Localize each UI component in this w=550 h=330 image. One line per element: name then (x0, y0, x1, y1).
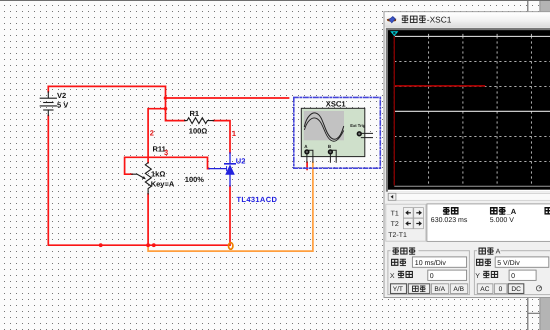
svg-text:A/B: A/B (453, 286, 464, 293)
svg-text:100%: 100% (185, 175, 205, 184)
svg-text:R1: R1 (190, 109, 200, 118)
net number 0 (orange, ground net) (229, 243, 233, 250)
svg-text:T2: T2 (391, 221, 399, 228)
shunt regulator U2 (TL431) leads (209, 153, 235, 186)
svg-text:Y/T: Y/T (393, 286, 403, 293)
buttons AC 0 DC (477, 284, 493, 294)
cursor T1 (393, 36, 395, 185)
svg-text:Y: Y (475, 273, 480, 280)
svg-text:TL431ACD: TL431ACD (237, 195, 278, 204)
buttons (391, 284, 407, 294)
battery (DC source) V2 (40, 92, 56, 116)
svg-text:U2: U2 (236, 156, 246, 165)
svg-text:0: 0 (430, 273, 434, 280)
svg-text:XSC1: XSC1 (326, 100, 347, 109)
svg-text:B/A: B/A (434, 286, 445, 293)
wire net1 branch to old scope position (166, 97, 289, 99)
wire bottom ground rail (48, 116, 230, 246)
svg-text:A: A (496, 249, 501, 256)
svg-text:V2: V2 (57, 91, 66, 100)
oscilloscope XSC1 selection dashed box (294, 97, 381, 168)
title bar (385, 12, 550, 27)
potentiometer R11 (145, 163, 151, 194)
sheet zone divider (528, 312, 540, 314)
scale row (477, 259, 491, 265)
scale row (392, 259, 406, 265)
channel B trace (flat 0V) (394, 110, 550, 112)
graticule (394, 36, 550, 186)
svg-text:1kΩ: 1kΩ (151, 169, 165, 178)
title text 示波器-XSC1 (402, 16, 426, 23)
potentiometer wiper arrow (132, 174, 144, 178)
svg-text:AC: AC (480, 286, 489, 293)
channel A trace (395, 85, 486, 87)
svg-text:DC: DC (511, 286, 521, 293)
svg-text:0: 0 (499, 286, 503, 293)
oscilloscope mini screen (304, 111, 344, 140)
U2 triangle body (225, 164, 235, 174)
sheet frame outer edge (539, 0, 541, 330)
horizontal scrollbar (396, 193, 550, 200)
svg-text:Key=A: Key=A (151, 179, 175, 188)
svg-text:3: 3 (164, 148, 168, 157)
svg-text:T1: T1 (391, 210, 399, 217)
svg-text:630.023 ms: 630.023 ms (431, 217, 468, 224)
junction channel B tap on ground rail (153.8,245.2) (152, 243, 156, 247)
wire R1 right to U2 cathode (214, 121, 231, 153)
sheet frame inner border line (527, 0, 529, 330)
title icon (387, 16, 396, 23)
oscilloscope XSC1 instrument body (301, 108, 365, 156)
junction on ground rail (100.7,245.2) (99, 243, 103, 247)
display (386, 28, 550, 192)
bottom axis (394, 185, 550, 187)
Ext Trig terminal (357, 132, 361, 136)
svg-text:1: 1 (232, 129, 236, 138)
junction pot bottom on ground rail (148.1,245.2) (146, 243, 150, 247)
top axis (394, 35, 550, 37)
channel B terminal (329, 150, 333, 154)
window body (384, 12, 550, 298)
svg-text:2: 2 (150, 128, 154, 137)
svg-text:5 V/Div: 5 V/Div (497, 259, 520, 267)
group box timebase (388, 251, 470, 295)
svg-text:100Ω: 100Ω (189, 127, 208, 136)
svg-text:0: 0 (511, 273, 515, 280)
svg-text:Ext Trig: Ext Trig (350, 123, 366, 128)
wire orange channel B to ground rail (148, 162, 313, 251)
wire pot bottom to rail (147, 194, 149, 245)
resistor R1 (185, 118, 214, 124)
channel A terminal (305, 150, 309, 154)
wire red stub below scope A terminal (306, 162, 308, 169)
oscilloscope icon sine waves (304, 113, 343, 139)
svg-text:X: X (390, 273, 395, 280)
wire branch to potentiometer top (148, 109, 165, 163)
T1 T2 cursor panel (386, 204, 426, 241)
off-page gray area right (540, 0, 550, 330)
junction at net 1 branch (165.5,98) (164, 96, 168, 100)
wire battery top to R1 left (net 2 vertical) (48, 86, 184, 120)
group box channel A (474, 251, 550, 295)
readout panel (427, 204, 550, 242)
wire pot wiper to U2 ref (125, 157, 209, 174)
svg-text:-XSC1: -XSC1 (427, 15, 452, 25)
ground dial icon (536, 286, 541, 291)
svg-text:T2-T1: T2-T1 (388, 232, 407, 239)
junction at net 2 branch (165.5,108.7) (164, 107, 168, 111)
svg-text:5 V: 5 V (57, 100, 68, 109)
svg-text:10 ms/Div: 10 ms/Div (415, 259, 447, 267)
svg-text:_A: _A (506, 207, 517, 216)
app toolbar edge along top (0, 0, 550, 1)
svg-text:5.000 V: 5.000 V (490, 217, 514, 224)
